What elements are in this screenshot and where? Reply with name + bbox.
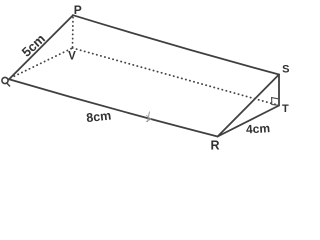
- svg-text:T: T: [282, 103, 289, 115]
- svg-text:S: S: [282, 64, 289, 76]
- svg-text:8cm: 8cm: [86, 109, 112, 126]
- svg-text:V: V: [68, 51, 76, 63]
- svg-text:P: P: [74, 3, 82, 17]
- svg-text:4cm: 4cm: [246, 121, 271, 136]
- svg-text:R: R: [210, 139, 219, 153]
